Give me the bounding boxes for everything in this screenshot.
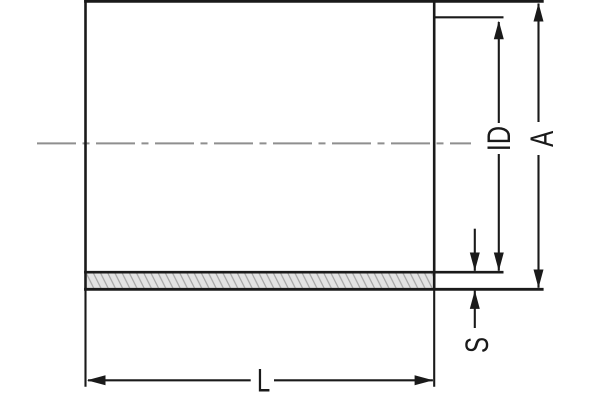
arrowhead S down xyxy=(470,253,480,272)
wall inner line / extension line ID bottom xyxy=(84,271,503,274)
arrowhead ID up xyxy=(494,21,504,40)
arrowhead L left xyxy=(87,375,106,385)
svg-text:A: A xyxy=(524,131,560,147)
wall section hatch fill xyxy=(87,274,433,288)
arrowhead A down xyxy=(534,270,544,289)
body left outline xyxy=(84,0,87,291)
svg-text:L: L xyxy=(257,363,270,399)
extension line ID top xyxy=(434,16,503,18)
dimension line ID (vertical) xyxy=(498,22,500,123)
body top outline / extension line A top xyxy=(84,0,544,3)
arrowhead A up xyxy=(534,3,544,22)
arrowhead L right xyxy=(415,375,434,385)
arrowhead S up xyxy=(470,290,480,309)
svg-text:ID: ID xyxy=(482,126,518,151)
body right outline xyxy=(433,0,436,291)
arrowhead ID down xyxy=(494,253,504,272)
extension line L right xyxy=(433,290,435,387)
dimension line A (vertical) xyxy=(537,4,539,123)
dimension line L (horizontal) xyxy=(88,379,251,381)
dimension line S upper (vertical, arrow down to wall top) xyxy=(474,229,476,271)
svg-text:S: S xyxy=(459,337,495,353)
extension line L left xyxy=(84,290,86,387)
centerline (dash-dot, gray) xyxy=(37,142,471,144)
dimension line S lower (vertical, arrow up to body bottom) xyxy=(474,291,476,328)
body bottom outline / extension line A bottom xyxy=(84,288,543,291)
